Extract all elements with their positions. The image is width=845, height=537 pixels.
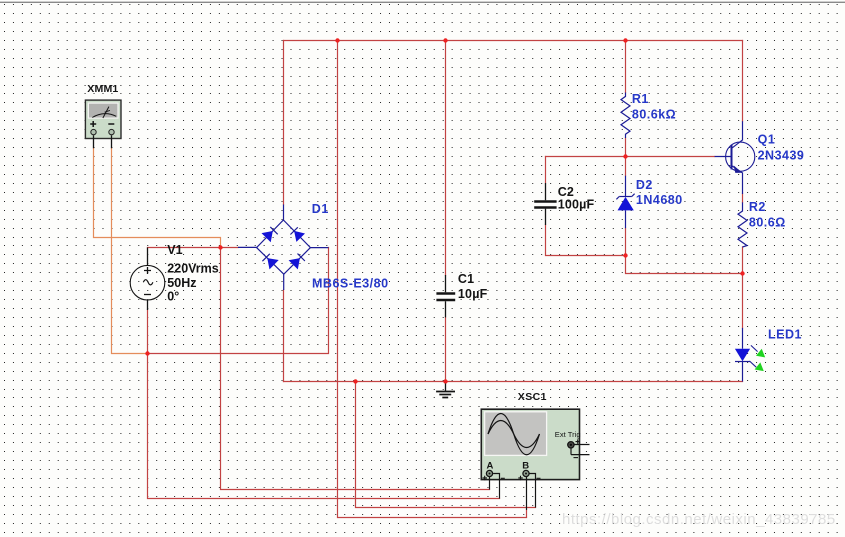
transistor Q1 [715, 121, 755, 194]
svg-text:80.6Ω: 80.6Ω [749, 215, 786, 229]
resistor R1 [621, 93, 630, 139]
capacitor C2 [534, 183, 556, 225]
wire: bridge right loop to V1 minus [148, 248, 329, 354]
junction ground rail at C1/ground [443, 379, 447, 383]
svg-text:V1: V1 [167, 243, 182, 257]
wire: rail down to scope B+ [338, 41, 527, 518]
wire: rail to R1 top [625, 41, 627, 93]
bridge rectifier D1 [238, 205, 328, 291]
wire: base node horizontal C2 to Q1 [546, 156, 715, 158]
wire: V1 minus node down to scope A- [148, 354, 500, 499]
svg-text:LED1: LED1 [768, 327, 802, 341]
wire: node to LED1 top [742, 274, 744, 328]
svg-text:XSC1: XSC1 [518, 391, 547, 403]
ground [436, 384, 455, 398]
oscilloscope XSC1 [481, 409, 589, 517]
wire: XMM1 minus lead (orange) [112, 148, 148, 353]
svg-text:R1: R1 [632, 92, 649, 106]
wire: C2 top lead drop [545, 157, 547, 184]
wire: V1 bottom lead drop [147, 310, 149, 354]
svg-text:R2: R2 [749, 200, 766, 214]
wire: R2 bottom to node [742, 247, 744, 274]
scope A+ stub [489, 477, 491, 490]
wire: R1 bottom to base node [625, 138, 627, 157]
junction R2 bottom node [740, 271, 744, 275]
svg-text:A: A [487, 460, 494, 471]
wire: C2 bottom to D2 bottom node [546, 225, 626, 256]
svg-text:Q1: Q1 [758, 133, 776, 147]
zener diode D2 [616, 176, 634, 229]
wire: V1 plus node down to scope A+ [221, 248, 490, 490]
wire: rail to Q1 collector [742, 41, 744, 122]
LED1 emission arrow 2 [750, 361, 757, 367]
svg-text:80.6kΩ: 80.6kΩ [632, 107, 676, 121]
wire: ground rail down to scope B- [356, 382, 536, 508]
scope B+ stub [526, 477, 528, 510]
junction node V1 plus [218, 245, 222, 249]
wire: XMM1 plus lead (orange) [94, 148, 221, 247]
LED1 emission arrow 1 [751, 345, 758, 351]
svg-text:XMM1: XMM1 [87, 83, 118, 95]
svg-text:100µF: 100µF [558, 198, 595, 212]
wire: rail to C1 top [445, 41, 447, 276]
wire: C1 bottom to ground rail [445, 317, 447, 381]
junction on rail at C1 [443, 38, 447, 42]
LED1 [735, 328, 750, 382]
wire: Q1 emitter to R2 top [742, 194, 744, 202]
multimeter XMM1 [85, 100, 121, 148]
scope A- stub [493, 474, 499, 499]
svg-text:220Vrms: 220Vrms [167, 262, 218, 276]
svg-text:Ext Trig: Ext Trig [555, 430, 581, 439]
resistor R2 [738, 202, 747, 247]
scope B- stub [529, 474, 535, 508]
wire: bridge bottom to ground rail [283, 290, 285, 382]
capacitor C1 [436, 275, 455, 317]
svg-text:B: B [522, 460, 529, 471]
junction on rail at R1 [623, 38, 627, 42]
svg-text:D1: D1 [312, 202, 329, 216]
svg-text:C1: C1 [458, 272, 474, 286]
svg-text:https://blog.csdn.net/weixin_4: https://blog.csdn.net/weixin_43839785 [562, 511, 836, 528]
junction base node [623, 154, 627, 158]
junction node V1 minus [145, 351, 149, 355]
wire: V1 plus to bridge left [148, 247, 239, 249]
svg-text:50Hz: 50Hz [167, 276, 196, 290]
svg-text:10µF: 10µF [458, 287, 488, 301]
AC source V1 [130, 248, 165, 311]
junction ground rail B- tap [353, 379, 357, 383]
window top border [0, 2, 845, 3]
junction on rail at B+ branch [335, 38, 339, 42]
wire: D2 bottom to node [625, 228, 627, 255]
svg-text:0°: 0° [167, 290, 179, 304]
junction D2 bottom node [623, 253, 627, 257]
svg-text:D2: D2 [636, 178, 653, 192]
svg-text:1N4680: 1N4680 [636, 193, 683, 207]
wire: D2 node to R2 bottom node [626, 256, 743, 274]
wire: rail to bridge top [283, 41, 285, 205]
wire: top positive rail [284, 40, 743, 42]
wire: base node to D2 top [625, 157, 627, 176]
wire: ground rail [284, 381, 743, 383]
svg-text:MB6S-E3/80: MB6S-E3/80 [312, 276, 389, 290]
svg-text:2N3439: 2N3439 [758, 148, 805, 162]
